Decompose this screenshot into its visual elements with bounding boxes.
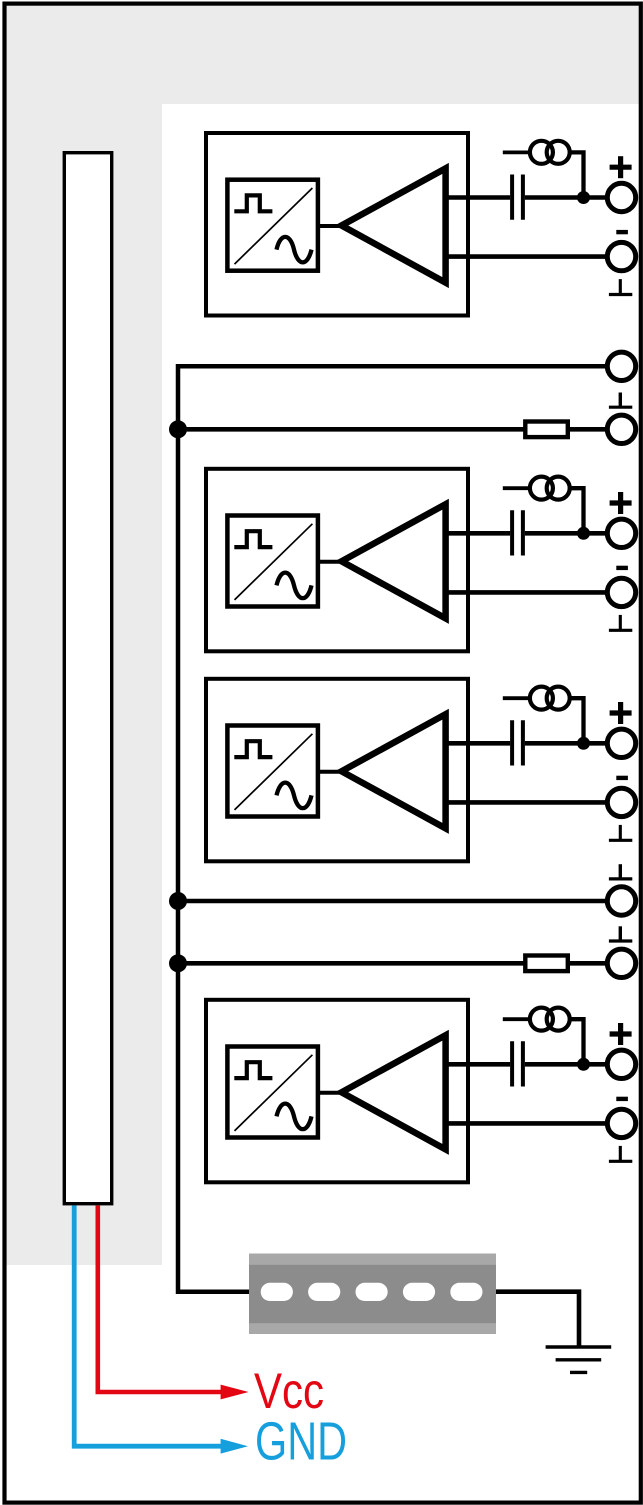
arrow Vcc bbox=[221, 1385, 249, 1400]
wire bus to terminal 9 bbox=[178, 899, 605, 904]
gray housing left column bbox=[4, 4, 162, 1265]
wire GND blue bbox=[74, 1206, 232, 1447]
channel 1 bbox=[206, 133, 636, 316]
junction on bus at R2 bbox=[169, 954, 187, 972]
resistor R1 bbox=[525, 422, 568, 438]
DIN rail slot 1 bbox=[261, 1283, 293, 1301]
DIN rail slot 2 bbox=[308, 1283, 340, 1301]
DIN rail top flange bbox=[249, 1254, 496, 1335]
gray housing top strip bbox=[4, 4, 640, 104]
resistor R2 bbox=[525, 956, 568, 972]
earth tack above terminal 4 bbox=[619, 393, 622, 408]
channel 3 bbox=[206, 679, 636, 862]
wire Vcc red bbox=[98, 1206, 232, 1393]
earth tack above terminal 9 bbox=[619, 864, 622, 879]
channel 2 bbox=[206, 469, 636, 652]
DIN rail body bbox=[249, 1265, 496, 1323]
connector strip bbox=[64, 153, 111, 1204]
junction on bus at terminal 9 bbox=[169, 892, 187, 910]
junction on bus at R1 bbox=[169, 420, 187, 438]
arrow GND bbox=[221, 1439, 248, 1454]
terminal 9 bbox=[607, 887, 635, 915]
DIN rail slot 4 bbox=[403, 1283, 435, 1301]
terminal 3 bbox=[607, 352, 635, 380]
terminal 4 bbox=[607, 415, 635, 443]
earth tack above terminal 10 bbox=[619, 926, 622, 941]
wire bus to resistor R2 bbox=[178, 961, 525, 966]
wire bus to resistor R1 bbox=[178, 427, 525, 432]
DIN rail slot 3 bbox=[356, 1283, 388, 1301]
wire DIN rail to earth bbox=[496, 1292, 579, 1346]
terminal 10 bbox=[607, 949, 635, 977]
earth ground symbol bbox=[546, 1345, 612, 1348]
svg-text:GND: GND bbox=[255, 1412, 347, 1472]
DIN rail slot 5 bbox=[450, 1283, 482, 1301]
bus wire from terminal 3 down to DIN rail bbox=[178, 366, 605, 1291]
channel 4 bbox=[206, 1000, 636, 1183]
wire R2 to terminal 10 bbox=[570, 961, 605, 966]
wire R1 to terminal 4 bbox=[570, 427, 605, 432]
